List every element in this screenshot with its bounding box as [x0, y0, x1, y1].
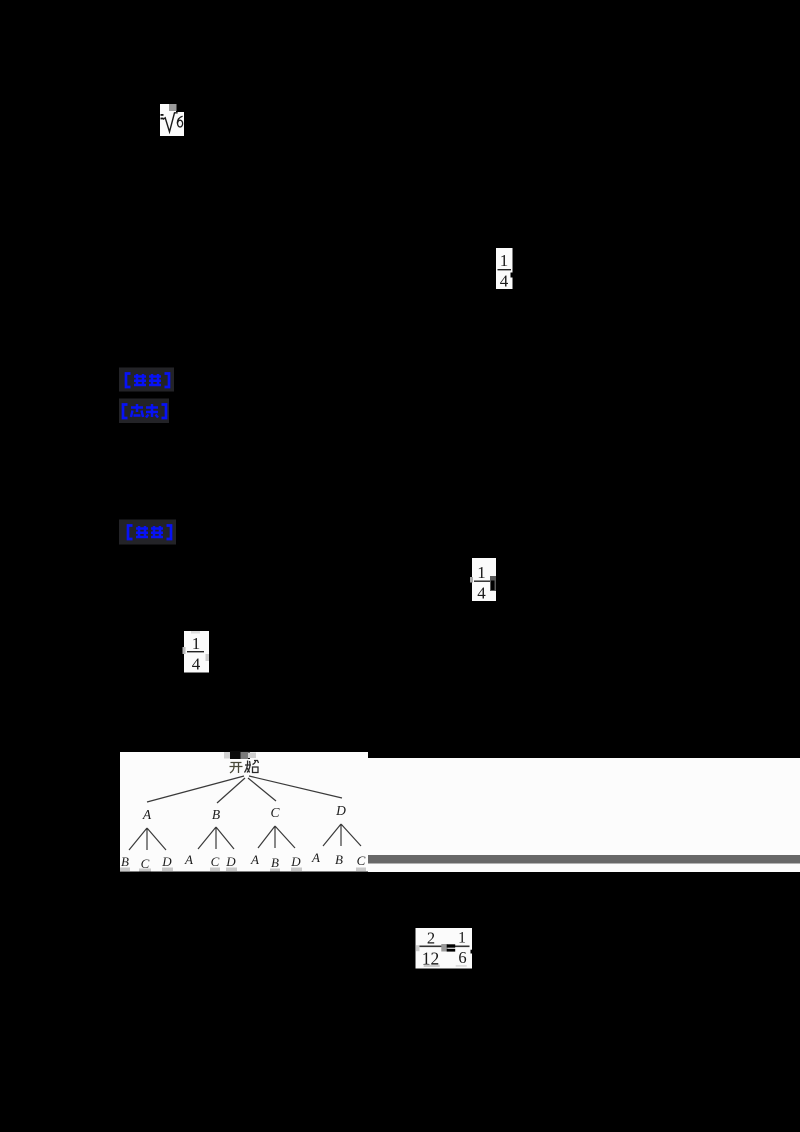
svg-text:4: 4: [192, 655, 201, 674]
svg-text:1: 1: [477, 563, 486, 582]
svg-text:B: B: [335, 852, 343, 867]
gray blocks above start label: [224, 752, 232, 759]
row 3 letters: [121, 850, 366, 871]
svg-text:1: 1: [500, 251, 509, 270]
svg-text:D: D: [161, 854, 172, 869]
svg-text:B: B: [212, 807, 220, 822]
svg-text:C: C: [357, 853, 366, 868]
gray underline marks below bottom row: [120, 868, 366, 872]
svg-text:C: C: [270, 805, 280, 820]
svg-text:1: 1: [458, 930, 466, 947]
svg-text:B: B: [121, 854, 129, 869]
formula image fraction 1/4 (third): [183, 631, 210, 674]
svg-text:2: 2: [427, 929, 435, 948]
svg-text:6: 6: [458, 948, 466, 967]
svg-text:B: B: [271, 855, 279, 870]
svg-text:D: D: [335, 803, 346, 818]
label explanation (blue highlighted): [119, 520, 176, 545]
formula image fraction 1/4 (first): [496, 248, 514, 291]
svg-text:D: D: [225, 854, 236, 869]
svg-text:4: 4: [500, 272, 509, 291]
svg-text:A: A: [311, 850, 320, 865]
label answer (blue highlighted): [119, 368, 174, 392]
label analysis (blue highlighted): [119, 399, 169, 424]
start (kai shi) text: [230, 763, 243, 774]
gray horizontal bar: [368, 855, 800, 864]
formula image 2/12 = 1/6: [416, 928, 474, 969]
svg-text:1: 1: [192, 634, 201, 653]
row 2 letters A B C D: [142, 803, 346, 822]
tree diagram white background (left image): [120, 752, 368, 872]
top-level branch lines: [147, 776, 342, 803]
svg-text:4: 4: [477, 584, 486, 603]
formula image fraction 1/4 (second): [470, 558, 496, 603]
svg-text:C: C: [211, 854, 220, 869]
svg-text:A: A: [184, 852, 193, 867]
tree diagram white background (right part): [368, 758, 800, 872]
formula image sqrt(6): [160, 104, 184, 136]
svg-text:A: A: [142, 807, 152, 822]
svg-text:A: A: [250, 852, 259, 867]
sub-branch lines under A: [129, 824, 361, 850]
svg-text:D: D: [290, 854, 301, 869]
